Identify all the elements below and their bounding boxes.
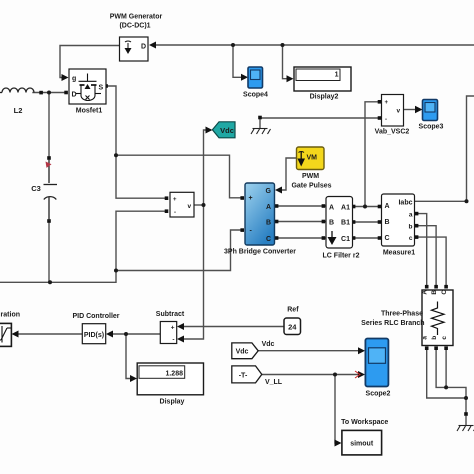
wire to bridge - [116, 230, 240, 271]
svg-text:C: C [385, 235, 390, 242]
port square RLC bot c [444, 346, 448, 350]
node Iabc corner [465, 199, 469, 203]
arrow into Mosfet g [62, 74, 69, 81]
svg-text:Scope2: Scope2 [366, 391, 391, 398]
svg-text:To Workspace: To Workspace [341, 419, 388, 426]
svg-text:1.288: 1.288 [165, 371, 183, 378]
port square Mosfet D in [64, 91, 68, 95]
svg-text:3Ph Bridge Converter: 3Ph Bridge Converter [224, 249, 296, 256]
svg-text:24: 24 [288, 323, 297, 332]
svg-text:g: g [72, 76, 76, 83]
capacitor C3 [44, 159, 58, 221]
wire node to Subtract minus [182, 205, 204, 339]
port square Mosfet S [104, 84, 108, 88]
node top rail to Scope4 [231, 43, 235, 47]
svg-text:a: a [422, 336, 429, 340]
signal arrows [12, 42, 423, 447]
svg-text:b: b [409, 224, 413, 231]
scope icon Scope4 [248, 67, 263, 88]
svg-text:L2: L2 [14, 106, 23, 115]
port square Measure b out [415, 224, 419, 228]
from tag Vdc [232, 343, 258, 359]
red polarity mark C3 [46, 162, 52, 168]
sum block Subtract [160, 322, 176, 344]
wire Vab v to Scope3 [404, 109, 416, 111]
svg-text:v: v [188, 203, 192, 210]
svg-text:Vdc: Vdc [262, 341, 275, 348]
svg-text:Vdc: Vdc [220, 126, 234, 135]
port square bridge C out [275, 236, 279, 240]
svg-text:Display: Display [160, 398, 185, 405]
svg-text:A: A [266, 204, 271, 211]
wire Measure c to RLC C [415, 237, 446, 286]
svg-text:Subtract: Subtract [156, 311, 185, 318]
svg-text:C1: C1 [341, 236, 350, 243]
wire Ref to Subtract plus [182, 326, 284, 328]
goto tag PWM Gate Pulses yellow [297, 147, 325, 170]
voltage measurement Vab_VSC2 [382, 95, 404, 127]
wire RLC bottom a [427, 349, 466, 398]
wire -T- tag to Scope2 in2 [262, 374, 359, 376]
wire LC B1 to Measure B [353, 221, 382, 223]
port square LC C in [322, 236, 326, 240]
subsystem Measure1 [382, 194, 415, 246]
svg-text:B1: B1 [341, 220, 350, 227]
svg-text:(DC-DC)1: (DC-DC)1 [119, 23, 150, 30]
port square LC C1 out [352, 236, 356, 240]
goto tag Vdc teal [212, 122, 235, 138]
port square Vab plus [378, 100, 382, 104]
port square LC A in [322, 204, 326, 208]
svg-text:+: + [171, 325, 175, 332]
wire node to Vdc goto [204, 130, 207, 205]
svg-text:D: D [72, 92, 77, 99]
svg-text:Ref: Ref [287, 307, 299, 314]
svg-text:Scope3: Scope3 [419, 124, 444, 131]
arrow into Saturation [12, 331, 19, 338]
to workspace simout [342, 430, 382, 455]
wire branch to Display2 [283, 45, 288, 79]
red select mark on Scope2 in2 [355, 371, 360, 378]
svg-text:PWM: PWM [302, 173, 319, 180]
wire Iabc out [415, 96, 474, 201]
wire RLC bottom b [436, 349, 466, 414]
svg-text:Saturation: Saturation [0, 312, 20, 319]
svg-text:B: B [385, 219, 390, 226]
svg-text:v: v [397, 108, 401, 115]
arrow into Vdc goto tag [206, 127, 213, 134]
svg-text:Three-Phase: Three-Phase [381, 311, 423, 318]
voltage measurement V1 [170, 192, 194, 217]
svg-text:C: C [266, 236, 271, 243]
display block Display2 [294, 67, 351, 91]
node RLC gnd c [444, 385, 448, 389]
arrow into Subtract minus [177, 336, 184, 343]
port square C3 top [47, 156, 51, 160]
arrow into Display2 [287, 75, 294, 82]
svg-text:c: c [441, 336, 448, 340]
svg-text:A1: A1 [341, 205, 350, 212]
wire bridge B to LC B [275, 221, 325, 223]
saturation block [0, 323, 11, 346]
wire LC C1 to Measure C [353, 237, 382, 239]
node V output [202, 203, 206, 207]
wire C3 to bottom rail [48, 221, 50, 282]
arrow into Scope2 in1 [358, 347, 365, 354]
port square Measure a out [415, 212, 419, 216]
svg-text:S: S [99, 85, 104, 92]
port square LC B in [322, 220, 326, 224]
svg-text:PID(s): PID(s) [84, 332, 104, 339]
port square RLC bot a [425, 346, 429, 350]
svg-text:Iabc: Iabc [398, 200, 412, 207]
svg-text:V_LL: V_LL [265, 379, 283, 386]
scope icon Scope2 [365, 339, 388, 387]
svg-text:B: B [431, 290, 438, 295]
wire Subtract out to PID [111, 333, 160, 335]
port square Vab minus [378, 116, 382, 120]
port square RLC bot b [434, 346, 438, 350]
ground G1 [251, 119, 271, 134]
svg-text:Series RLC Branch: Series RLC Branch [361, 320, 424, 327]
node S line / bridge+ [114, 153, 118, 157]
node L2/C3 [47, 91, 51, 95]
port square Measure A in [378, 205, 382, 209]
port square bridge A out [275, 204, 279, 208]
arrow into Scope2 in2 [358, 371, 365, 378]
display block Display [137, 363, 203, 395]
wire LC A1 to Measure A [353, 206, 382, 208]
wire branch to Display [126, 334, 131, 379]
svg-text:B: B [266, 220, 271, 227]
wire bridge A to LC A [275, 205, 325, 207]
node RLC gnd a [464, 396, 468, 400]
wire branch to simout [334, 375, 337, 444]
inductor L2 [0, 88, 34, 93]
arrow into Scope4 [241, 74, 248, 81]
svg-text:VM: VM [307, 154, 318, 161]
wire bridge C to LC C [275, 237, 325, 239]
svg-text:Measure1: Measure1 [383, 250, 415, 257]
wire top rail D [152, 44, 474, 46]
port square LC A1 out [352, 205, 356, 209]
svg-text:1: 1 [335, 72, 339, 79]
port square LC B1 out [352, 220, 356, 224]
svg-text:PWM Generator: PWM Generator [110, 14, 163, 21]
svg-text:PID Controller: PID Controller [72, 313, 119, 320]
node A1/Vab [363, 205, 367, 209]
svg-text:C: C [441, 290, 448, 295]
port square ground2 [464, 412, 468, 416]
subsystem LC Filter r2 [326, 197, 353, 249]
svg-text:A: A [422, 290, 429, 295]
port square V minus [165, 209, 169, 213]
svg-text:Mosfet1: Mosfet1 [76, 108, 103, 115]
svg-text:B: B [329, 220, 334, 227]
node PID/Display [124, 332, 128, 336]
arrow into Subtract plus [177, 323, 184, 330]
wire ground1 to Vab minus [260, 117, 378, 119]
port square RLC top B [434, 285, 438, 289]
wire Measure b to RLC B [415, 226, 436, 286]
svg-text:LC Filter r2: LC Filter r2 [323, 253, 360, 260]
ground G2 [457, 415, 474, 431]
from tag -T- [232, 366, 262, 383]
PWM Generator block [120, 37, 149, 61]
svg-text:a: a [409, 212, 413, 219]
constant Ref [284, 318, 301, 335]
wire Mosfet S down [106, 86, 166, 198]
port squares [39, 84, 468, 416]
port square C3 bottom [47, 219, 51, 223]
wire Vdc from-tag to Scope2 in1 [259, 350, 360, 352]
svg-text:C3: C3 [31, 184, 41, 193]
mosfet U Mosfet1 [69, 69, 106, 104]
node bottom rail / C3 [48, 280, 52, 284]
port square V plus [165, 196, 169, 200]
port square bridge plus [240, 196, 244, 200]
svg-text:+: + [173, 197, 177, 203]
port square Measure B in [378, 220, 382, 224]
svg-text:A: A [329, 205, 334, 212]
port square RLC top A [425, 285, 429, 289]
wire Measure a to RLC A [415, 214, 427, 286]
svg-text:-T-: -T- [239, 372, 248, 379]
node top rail to Display2 [281, 43, 285, 47]
svg-text:simout: simout [350, 441, 374, 448]
PID controller block [82, 324, 105, 344]
arrow into Display [130, 375, 137, 382]
wire PWM out to Mosfet gate [60, 46, 122, 78]
svg-text:Vdc: Vdc [236, 349, 249, 356]
svg-text:Display2: Display2 [310, 94, 339, 101]
svg-text:c: c [409, 235, 413, 242]
wire V- down to bottom rail [0, 211, 166, 282]
svg-text:Scope4: Scope4 [243, 92, 268, 99]
svg-text:-: - [174, 210, 176, 216]
svg-text:+: + [385, 100, 389, 106]
wire branch to Scope4 [233, 45, 244, 77]
three-phase RLC branch Z1 [422, 290, 453, 346]
port square ground1 [258, 116, 262, 120]
wire RLC bottom c [445, 349, 447, 387]
wire PID out to Saturation [17, 333, 82, 335]
svg-text:G: G [266, 188, 272, 195]
port square Measure c out [415, 235, 419, 239]
svg-text:Vab_VSC2: Vab_VSC2 [375, 129, 410, 136]
port square Measure C in [378, 236, 382, 240]
port square L2 terminal [39, 91, 43, 95]
arrow into bridge G [275, 187, 282, 194]
arrow into simout [335, 440, 342, 447]
svg-text:-: - [172, 337, 174, 344]
svg-text:b: b [431, 336, 438, 340]
arrow into PID [106, 331, 113, 338]
port square bridge minus [240, 228, 244, 232]
node VLL/simout [333, 373, 337, 377]
arrow into PWM D port [149, 42, 156, 49]
wire V output node [194, 204, 204, 206]
arrow into Scope3 [415, 106, 423, 113]
port square bridge B out [275, 220, 279, 224]
port square RLC top C [444, 285, 448, 289]
wire L2 to Mosfet D [33, 92, 66, 94]
bridge converter U2 [245, 183, 275, 245]
svg-text:A: A [385, 203, 390, 210]
svg-text:-: - [385, 117, 387, 123]
node Vminus line / bridge- [114, 269, 118, 273]
svg-text:D: D [141, 44, 146, 51]
wire A1 node up to Vab plus [365, 102, 378, 207]
wire VM tag to bridge G [281, 158, 297, 190]
scope icon Scope3 [423, 100, 438, 121]
svg-text:+: + [249, 195, 253, 202]
svg-text:Gate Pulses: Gate Pulses [291, 183, 331, 190]
wire to bridge + [116, 155, 240, 198]
wire C3 branch top [48, 93, 50, 159]
